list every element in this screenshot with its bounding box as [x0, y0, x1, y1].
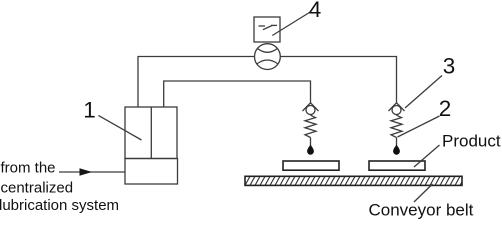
- right nozzle spring: [391, 115, 402, 137]
- pump block 1 lower body: [125, 159, 178, 185]
- left nozzle spring 2: [305, 115, 316, 137]
- left check valve seat: [303, 103, 319, 111]
- left product box: [283, 161, 339, 170]
- svg-text:1: 1: [83, 98, 96, 123]
- svg-text:2: 2: [439, 96, 452, 121]
- right nozzle outlet stem: [396, 138, 398, 147]
- leader line label 2: [398, 116, 440, 137]
- leader line label 1: [98, 115, 141, 140]
- right product box: [369, 161, 425, 170]
- switch blade: [263, 25, 273, 29]
- left check valve ball: [306, 106, 315, 115]
- right check valve seat 3: [389, 103, 405, 111]
- svg-text:4: 4: [309, 0, 322, 22]
- leader line Product: [414, 145, 440, 167]
- wire flow monitor to right nozzle: [280, 57, 396, 104]
- leader line Conveyor belt: [414, 184, 433, 202]
- switch left contact: [259, 25, 266, 27]
- left nozzle outlet stem: [310, 138, 312, 147]
- svg-text:Product: Product: [442, 132, 501, 151]
- pump block 1 divider: [150, 107, 152, 159]
- svg-text:Conveyor belt: Conveyor belt: [369, 201, 474, 220]
- switch right contact: [271, 24, 277, 26]
- pressure switch box 4: [254, 17, 280, 42]
- svg-text:centralized: centralized: [1, 180, 74, 197]
- svg-text:from the: from the: [1, 160, 56, 177]
- flow monitor lower arc: [257, 60, 278, 64]
- right oil droplet: [393, 145, 400, 155]
- leader line label 4: [272, 12, 311, 36]
- pump block 1 upper body: [125, 107, 177, 159]
- wire pump to flow monitor: [138, 57, 254, 108]
- flow monitor body: [255, 44, 281, 70]
- conveyor belt: [245, 176, 462, 185]
- wire pump to left nozzle: [164, 81, 311, 107]
- inlet wire from centralized lubrication system: [59, 171, 125, 173]
- inlet flow arrowhead: [80, 168, 93, 175]
- right check valve ball: [392, 106, 401, 115]
- flow monitor upper arc: [257, 49, 277, 53]
- leader line label 3: [405, 76, 442, 109]
- svg-text:lubrication system: lubrication system: [0, 197, 119, 214]
- svg-text:3: 3: [443, 54, 456, 79]
- left oil droplet: [307, 145, 314, 155]
